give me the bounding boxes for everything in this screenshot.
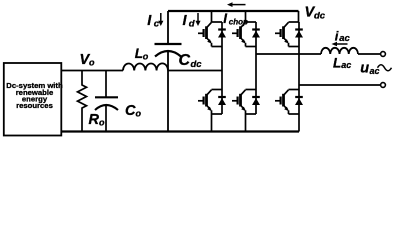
top rail [168,10,299,12]
terminal bottom [381,83,386,88]
wire: leg3 midpoint to bottom terminal [299,84,380,86]
svg-text:I: I [223,11,227,26]
terminal top [381,52,386,57]
svg-text:C: C [125,103,136,119]
DC system source box [4,63,62,136]
IGBT T6 [275,90,303,115]
svg-text:u: u [360,61,369,77]
svg-text:i: i [335,29,339,44]
svg-text:ac: ac [341,60,351,70]
svg-text:C: C [179,52,191,69]
IGBT T1 (chopper top) [198,22,226,47]
svg-text:o: o [89,58,95,68]
leg 3 top drop from rail end [298,11,300,22]
leg 1 mid vertical [221,47,223,90]
svg-text:dc: dc [314,10,326,21]
IGBT T4 [232,90,260,115]
current Ichop arrow [232,4,246,6]
wire: Lac to top terminal [358,53,381,55]
wire: box top output to inductor Lo [61,70,123,72]
svg-text:R: R [89,112,100,128]
wire: Lo to leg1 midpoint [168,70,222,72]
inductor Lo [123,63,168,70]
IGBT T5 [275,22,303,47]
svg-text:dc: dc [191,59,203,70]
bottom rail [61,130,299,132]
svg-text:ac: ac [339,33,350,44]
svg-text:c: c [154,19,160,30]
leg 2 bottom stub [245,114,247,132]
IGBT T3 [232,22,260,47]
ac sine symbol [378,65,392,71]
leg 2 mid vertical [255,47,257,90]
leg 3 bottom stub [298,114,300,132]
leg 1 bottom stub [211,114,213,132]
IGBT T2 (chopper bottom) [198,90,226,115]
svg-text:L: L [333,55,341,70]
wire: leg2 midpoint to Lac (phase out) [256,53,321,55]
leg 2 top stub [245,11,247,22]
capacitor Co [105,71,107,98]
leg 3 mid vertical [298,47,300,90]
svg-text:o: o [136,109,142,119]
svg-text:d: d [189,19,195,30]
resistor Ro [78,71,87,132]
svg-text:o: o [143,52,149,62]
svg-text:o: o [99,118,105,128]
leg 1 top stub [211,11,213,22]
svg-text:resources: resources [16,101,53,110]
inductor Lac [321,48,358,54]
capacitor Cdc vertical link [167,11,169,44]
